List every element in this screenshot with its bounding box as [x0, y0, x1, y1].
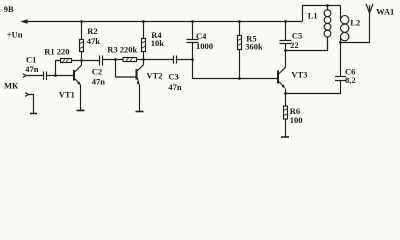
svg-text:R3 220k: R3 220k [107, 45, 137, 55]
wire collector node to L1 bottom [286, 37, 328, 51]
svg-text:L2: L2 [350, 18, 360, 28]
capacitor C5 [280, 40, 292, 42]
svg-text:C3: C3 [168, 71, 178, 81]
wire emitter node to C6 [286, 81, 341, 94]
svg-text:22: 22 [290, 40, 299, 50]
node rail dot C4 [191, 20, 194, 23]
wire VT3 collector up [285, 51, 287, 68]
svg-text:360k: 360k [245, 42, 263, 52]
transistor VT1 [73, 70, 75, 81]
wire mic bottom to ground [29, 95, 34, 114]
capacitor C6 [335, 76, 346, 78]
svg-text:10k: 10k [151, 38, 165, 48]
wire C5 to rail [285, 22, 287, 41]
node base junction dot [54, 74, 57, 77]
svg-text:VT3: VT3 [291, 69, 307, 79]
svg-text:МК: МК [4, 81, 19, 91]
svg-text:47n: 47n [168, 82, 182, 92]
antenna WA1 [369, 5, 371, 13]
capacitor C1 [43, 72, 45, 81]
node emitter junction dot [284, 92, 287, 95]
svg-text:47k: 47k [87, 36, 101, 46]
svg-text:C4: C4 [196, 31, 207, 41]
transistor VT3 [277, 71, 279, 84]
wire C4 to rail [192, 22, 194, 40]
wire mic top to C1 [27, 75, 44, 77]
wire VT3 emitter down [285, 89, 287, 94]
wire C6 top to antenna node [340, 43, 342, 77]
capacitor C4 [187, 39, 199, 41]
ground mic [30, 113, 37, 115]
svg-text:C2: C2 [92, 67, 102, 77]
wire R4 bottom to node [143, 52, 145, 60]
resistor R5 [238, 36, 242, 50]
ground R6 [281, 136, 289, 138]
svg-text:WA1: WA1 [376, 6, 394, 16]
node C4 bottom dot [191, 58, 194, 61]
node mic input top terminal [23, 74, 27, 78]
wire antenna feed [341, 13, 370, 43]
node rail dot C5 [284, 20, 287, 23]
svg-text:R2: R2 [87, 26, 97, 36]
ground VT1 emitter [77, 110, 85, 112]
wire R1 right to collector node and C2 [72, 60, 100, 62]
node L1 top dot [326, 4, 329, 7]
svg-text:R1 220: R1 220 [44, 47, 69, 57]
wire VT1 emitter down [80, 85, 82, 110]
wire C5 bottom to collector node [285, 44, 287, 51]
wire power rail [24, 21, 303, 23]
svg-text:1000: 1000 [196, 41, 213, 51]
svg-text:47n: 47n [92, 76, 106, 86]
node rail dot R5 [238, 20, 241, 23]
capacitor C3 [173, 56, 175, 64]
wire R5 bottom to base line [239, 50, 241, 79]
wire VT1 collector up [81, 52, 83, 66]
wire C4 bottom leg [192, 43, 194, 60]
node collector tank dot [284, 49, 287, 52]
wire C3 right then down to VT3 base line [177, 60, 277, 79]
node R5 base junction dot [238, 77, 241, 80]
wire VT2 emitter down [139, 84, 141, 111]
node mic input bottom terminal [25, 93, 29, 97]
resistor R4 [142, 39, 146, 52]
inductor L1 [327, 6, 329, 10]
resistor R2 [80, 40, 84, 52]
wire rail arrow head [20, 19, 27, 24]
svg-text:8,2: 8,2 [345, 75, 356, 85]
wire R3 right to node [137, 59, 174, 61]
svg-text:L1: L1 [308, 10, 318, 20]
transistor VT2 [136, 69, 138, 80]
node VT2 collector dot [142, 58, 145, 61]
capacitor C2 [99, 56, 101, 66]
wire base node up to R1 [56, 61, 61, 76]
wire R2 to rail [81, 22, 83, 40]
ground VT2 emitter [136, 111, 144, 113]
node C2-R3 junction dot [114, 58, 117, 61]
svg-text:C5: C5 [292, 30, 302, 40]
wire emitter node to R6 [285, 94, 287, 107]
wire VT2 collector up [143, 60, 145, 65]
wire VT2 base drop [116, 60, 137, 78]
resistor R1 [61, 59, 72, 63]
node rail dot R4 [142, 20, 145, 23]
resistor R6 [284, 106, 288, 119]
wire C1 to VT1 base [47, 75, 74, 77]
node collector VT1 dot [80, 59, 83, 62]
svg-text:VT2: VT2 [147, 71, 163, 81]
inductor L2 [340, 6, 342, 20]
resistor R3 [123, 58, 137, 62]
svg-text:9В: 9В [4, 4, 14, 14]
svg-text:+Uп: +Uп [7, 30, 23, 40]
wire R4 to rail [143, 22, 145, 39]
wire C2 right to R3 [103, 59, 123, 61]
wire rail riser to top line [303, 6, 341, 22]
wire R6 to ground [285, 119, 287, 137]
node antenna junction dot [339, 41, 342, 44]
svg-text:100: 100 [290, 115, 303, 125]
svg-text:47n: 47n [25, 64, 39, 74]
node rail dot R2 [80, 20, 83, 23]
svg-text:VT1: VT1 [59, 90, 75, 100]
svg-text:C1: C1 [26, 54, 36, 64]
wire R5 to rail [239, 22, 241, 36]
